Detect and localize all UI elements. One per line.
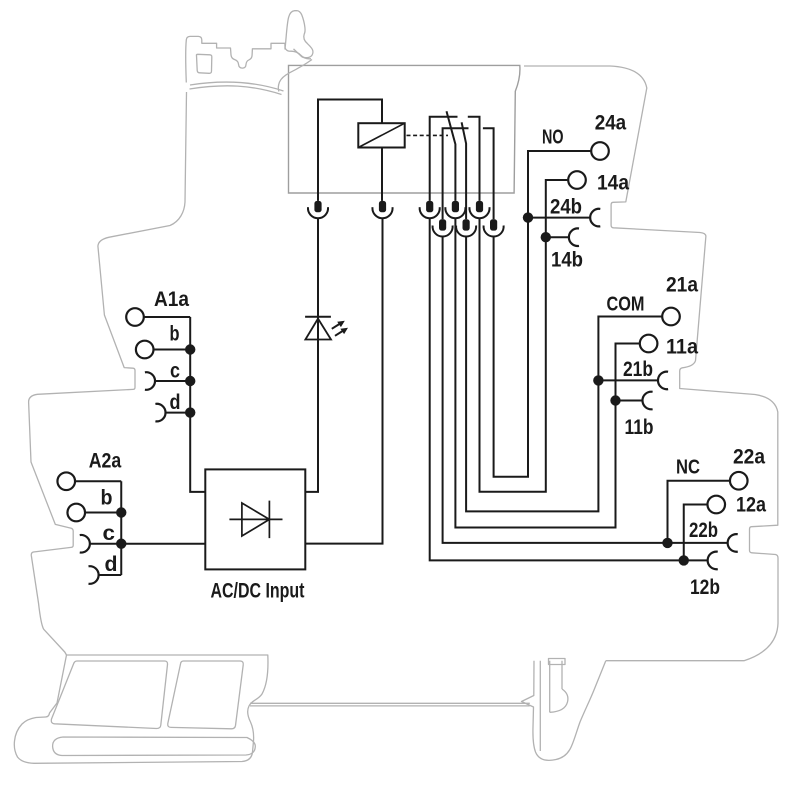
node 12 [679, 555, 689, 565]
terminal A1b [136, 341, 154, 359]
terminal A2a [57, 472, 75, 490]
node 22 [662, 538, 672, 548]
wire 21 net [466, 236, 662, 511]
plug clamps row 1 [308, 201, 490, 218]
terminal A1c [145, 372, 155, 390]
mechanical link (dashed) [407, 134, 449, 136]
terminal A1a [126, 308, 144, 326]
clamp pin x=479.5 [476, 201, 483, 212]
coil bottom wire [381, 148, 383, 201]
terminal A2c [80, 535, 90, 553]
wire A1a [144, 316, 190, 318]
terminal 21b [658, 372, 668, 390]
clamp pin x=429.7 [426, 201, 433, 212]
terminal 24a [591, 142, 609, 160]
wire 22a riser [668, 481, 730, 543]
contact 1 (pole 1) [430, 117, 480, 201]
node A2c [116, 539, 126, 549]
LED D1 wire [305, 218, 318, 492]
svg-text:c: c [170, 359, 180, 383]
svg-text:21b: 21b [623, 357, 653, 381]
housing outline upper-left edge [29, 92, 187, 655]
svg-text:A1a: A1a [154, 287, 190, 311]
wire A2c to rectifier [90, 543, 205, 545]
terminal 14b [569, 228, 579, 246]
node 21 [593, 375, 603, 385]
relay unit box [289, 65, 520, 193]
terminal A2d [89, 566, 99, 584]
wire 21b [598, 379, 657, 381]
left foot outline [14, 655, 268, 763]
terminal 21a [662, 308, 680, 326]
DIN clip body [186, 36, 311, 82]
coil top feed wire [318, 100, 382, 201]
terminal 14a [568, 171, 586, 189]
node 14 [541, 232, 551, 242]
svg-text:24b: 24b [550, 195, 582, 219]
relay coil K1 [358, 123, 404, 147]
svg-text:11b: 11b [625, 415, 654, 439]
wire 11 net [455, 218, 639, 528]
wire A2a [75, 480, 121, 482]
svg-text:22a: 22a [733, 445, 766, 469]
svg-text:c: c [103, 521, 116, 545]
terminal 22a [730, 472, 748, 490]
housing outline right side [524, 66, 778, 661]
wire A1b [154, 349, 191, 351]
terminal 24b [590, 209, 600, 227]
A1 bus wire [190, 317, 205, 492]
svg-text:A2a: A2a [89, 449, 122, 473]
left foot panel A [51, 661, 167, 729]
wire 12 net [430, 218, 708, 561]
coil return wire [305, 218, 382, 544]
terminal A2b [67, 504, 85, 522]
LED triangle [305, 319, 331, 340]
terminal 22b [728, 534, 738, 552]
DIN clip latch finger [285, 11, 313, 58]
wire 24b [528, 217, 590, 219]
terminal 11a [640, 335, 658, 353]
left foot panel B [168, 661, 244, 729]
svg-text:NO: NO [542, 126, 564, 149]
node A1c [185, 376, 195, 386]
svg-text:22b: 22b [689, 518, 718, 542]
coil diagonal [358, 123, 404, 147]
contact 1 mover [447, 111, 456, 201]
clamp pin x=455.4 [452, 201, 459, 212]
clamp pin x=493.6 [490, 219, 497, 230]
terminal A1d [155, 404, 165, 422]
LED light arrow 1 [332, 321, 345, 329]
wire A2b [85, 512, 121, 514]
svg-text:b: b [101, 486, 113, 510]
node A2b [116, 507, 126, 517]
svg-text:b: b [170, 322, 180, 346]
LED cathode bar [305, 316, 331, 318]
wire A2d [99, 574, 121, 576]
wire 14b [546, 236, 569, 238]
wire 12a riser [684, 505, 708, 561]
svg-text:14a: 14a [597, 171, 630, 195]
DIN rail lines [250, 703, 530, 706]
rail end block [549, 659, 566, 665]
svg-text:21a: 21a [666, 273, 699, 297]
svg-text:d: d [170, 390, 181, 414]
plug clamps row 2 [433, 219, 504, 236]
contact 2 (pole 2) [443, 128, 494, 219]
right foot inner lines [540, 661, 562, 751]
clip bottom arcs [190, 82, 284, 91]
wire A1c [155, 380, 190, 382]
clamp pin x=382.5 [379, 201, 386, 212]
wire A1d [166, 412, 191, 414]
terminal 12b [708, 552, 718, 570]
terminal 11b [642, 392, 652, 410]
left foot slot [53, 737, 256, 756]
right foot hook [550, 689, 568, 712]
svg-text:COM: COM [607, 293, 645, 316]
wire 14 net [480, 180, 568, 492]
clamp pin x=466.1 [463, 219, 470, 230]
svg-text:11a: 11a [666, 335, 699, 359]
node A1d [185, 407, 195, 417]
diode symbol [229, 501, 282, 538]
contact 2 mover [462, 122, 467, 219]
svg-text:24a: 24a [595, 110, 627, 134]
DIN clip hole [196, 54, 211, 73]
A2 bus wire [120, 481, 122, 575]
bridge rectifier U1 [205, 469, 305, 569]
terminal 12a [707, 496, 725, 514]
node A1b [185, 344, 195, 354]
svg-text:12b: 12b [690, 575, 720, 599]
svg-text:d: d [105, 552, 118, 576]
svg-text:12a: 12a [736, 493, 767, 517]
node 24 [523, 212, 533, 222]
right foot outline [522, 661, 606, 761]
svg-text:NC: NC [676, 456, 700, 479]
wire 11b [616, 400, 643, 402]
svg-text:14b: 14b [551, 248, 583, 272]
svg-text:AC/DC Input: AC/DC Input [211, 579, 305, 603]
DIN clip under-hook sweep [278, 60, 312, 92]
node 11 [610, 395, 620, 405]
wire 24 net [494, 151, 591, 477]
wire 22 net [443, 236, 728, 543]
clamp pin x=442.6 [439, 219, 446, 230]
clamp pin x=318 [314, 201, 321, 212]
LED light arrow 2 [335, 328, 348, 336]
